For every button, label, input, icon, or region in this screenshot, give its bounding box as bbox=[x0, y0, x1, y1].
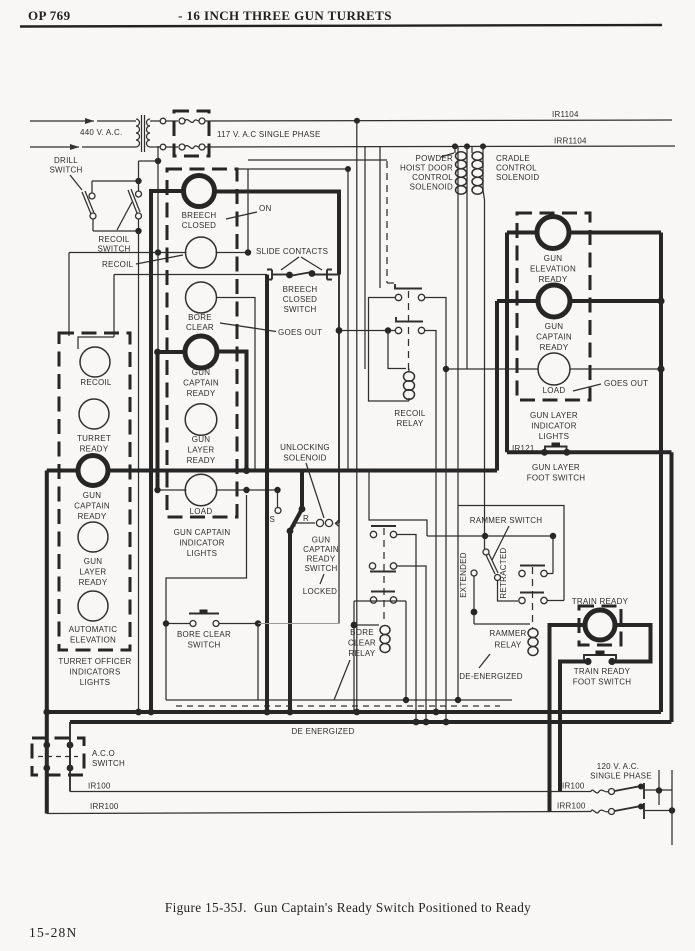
wire thin vertical x365 bbox=[364, 146, 366, 369]
wire x258 drop bbox=[257, 624, 259, 701]
svg-text:GUN: GUN bbox=[84, 557, 103, 566]
wire drill switch top to recoil switch top bbox=[92, 181, 139, 193]
label ON with leader bbox=[226, 204, 272, 219]
lamp load (right) bbox=[538, 353, 570, 385]
rammer relay contact A bbox=[519, 566, 547, 577]
wire thin bus y700 bbox=[166, 699, 512, 701]
svg-text:RETRACTED: RETRACTED bbox=[499, 547, 508, 598]
wire thin continuation to bore clear line bbox=[338, 523, 340, 624]
caption bbox=[29, 900, 531, 940]
wire x114 drop to recoil lamp bracket bbox=[113, 275, 115, 338]
wire contact2 right drop x426 bbox=[397, 566, 427, 722]
svg-text:TURRET OFFICER: TURRET OFFICER bbox=[58, 657, 131, 666]
svg-text:CONTROL: CONTROL bbox=[412, 173, 453, 182]
svg-text:GUN LAYER: GUN LAYER bbox=[530, 411, 578, 420]
svg-text:INDICATOR: INDICATOR bbox=[179, 539, 225, 548]
svg-text:FOOT SWITCH: FOOT SWITCH bbox=[527, 474, 586, 483]
bore clear relay actuator dashed bbox=[383, 528, 385, 624]
lamp gun captain ready (turret officer, lit) bbox=[78, 456, 108, 486]
gun captain ready switch blade bbox=[290, 509, 302, 531]
wire thick gun elevation ready feeder bbox=[507, 231, 661, 235]
node right end of recoil lamp line bbox=[245, 249, 251, 255]
svg-text:INDICATORS: INDICATORS bbox=[69, 668, 120, 677]
svg-text:INDICATOR: INDICATOR bbox=[531, 422, 577, 431]
wire right rail x672 bbox=[671, 770, 673, 845]
svg-text:SINGLE PHASE: SINGLE PHASE bbox=[590, 772, 652, 781]
svg-text:FOOT SWITCH: FOOT SWITCH bbox=[573, 678, 632, 687]
rammer relay actuator dashed bbox=[532, 567, 534, 628]
wire x354 drop bbox=[353, 601, 355, 712]
wire thick foot switch left leg bbox=[560, 662, 588, 792]
svg-text:CLEAR: CLEAR bbox=[348, 639, 376, 648]
label powder hoist door control solenoid bbox=[400, 153, 454, 192]
node on right rail bbox=[657, 297, 664, 304]
label recoil relay bbox=[394, 409, 426, 428]
bore clear relay contact 3 bbox=[370, 592, 396, 604]
svg-text:A.C.O: A.C.O bbox=[92, 749, 115, 758]
transformer T1 primary winding bbox=[136, 119, 140, 147]
recoil relay actuator dashed lower bbox=[408, 291, 410, 370]
svg-text:READY: READY bbox=[307, 555, 336, 564]
svg-text:CAPTAIN: CAPTAIN bbox=[303, 545, 339, 554]
transformer T1 secondary winding bbox=[147, 119, 151, 147]
wire 440V bottom feeder with arrow bbox=[30, 144, 133, 150]
gun layer indicator lights box (dashed) bbox=[517, 213, 590, 400]
lamp automatic elevation bbox=[78, 591, 108, 621]
label rammer switch with leader bbox=[470, 516, 543, 560]
label slide contacts with leaders bbox=[256, 247, 328, 270]
svg-text:SWITCH: SWITCH bbox=[187, 641, 220, 650]
label gun captain ready switch bbox=[303, 536, 339, 574]
wire junction to 117V bus bbox=[139, 160, 159, 162]
fuse and switch on IRR100 bbox=[591, 803, 675, 819]
svg-text:GUN: GUN bbox=[312, 536, 331, 545]
fuse box (dashed) bbox=[174, 111, 209, 156]
wire right rail x659 bbox=[658, 770, 660, 805]
wire thin vertical x348 bbox=[347, 169, 349, 471]
wire long drop from recoil switch to bottom bus bbox=[138, 231, 140, 712]
node drill/recoil top junction bbox=[135, 178, 141, 184]
wire thick gun captain ready loop bbox=[158, 350, 187, 354]
wire contact1 left to loop bbox=[369, 298, 410, 402]
wire faint bore clear to R drop bbox=[258, 623, 339, 625]
wire breech closed switch line y274 thin left run bbox=[114, 274, 267, 276]
train ready foot switch bbox=[584, 651, 616, 666]
lamp gun layer ready (middle column) bbox=[185, 404, 217, 436]
cradle control solenoid coil bbox=[472, 146, 485, 549]
wire thick train ready loop right bbox=[612, 625, 651, 662]
lamp gun captain ready (right, lit) bbox=[538, 285, 570, 317]
label recoil switch bbox=[97, 235, 130, 254]
svg-text:GUN: GUN bbox=[544, 254, 563, 263]
bore clear relay feed bbox=[369, 471, 427, 537]
wire x406 drop bbox=[405, 601, 407, 700]
lamp breech closed (lit) bbox=[184, 176, 215, 207]
gun captain indicator lights box (dashed) bbox=[167, 169, 237, 517]
svg-text:120 V. A.C.: 120 V. A.C. bbox=[597, 762, 639, 771]
label gun layer ready (middle) bbox=[187, 435, 216, 465]
svg-text:SLIDE CONTACTS: SLIDE CONTACTS bbox=[256, 247, 328, 256]
wire y601 run bbox=[354, 600, 406, 602]
svg-text:GUN: GUN bbox=[192, 368, 211, 377]
node top of x348 bbox=[345, 166, 351, 172]
svg-text:IR1104: IR1104 bbox=[552, 110, 579, 119]
wire coil drop bbox=[388, 331, 406, 369]
wire IR100 bus bbox=[70, 791, 591, 793]
svg-text:GOES OUT: GOES OUT bbox=[604, 379, 648, 388]
svg-text:CLOSED: CLOSED bbox=[182, 221, 216, 230]
node recoil switch bottom junction bbox=[135, 228, 141, 234]
wire thick drop from breech closed switch left bracket bbox=[265, 275, 269, 713]
label gun captain ready (middle) bbox=[183, 368, 219, 398]
svg-text:CLOSED: CLOSED bbox=[283, 295, 317, 304]
svg-text:GUN CAPTAIN: GUN CAPTAIN bbox=[174, 528, 231, 537]
wire thin vertical x356 from IR1104 junction bbox=[356, 121, 358, 712]
svg-text:GUN: GUN bbox=[192, 435, 211, 444]
svg-text:BORE CLEAR: BORE CLEAR bbox=[177, 630, 231, 639]
recoil relay coil bbox=[404, 369, 415, 402]
svg-text:CAPTAIN: CAPTAIN bbox=[74, 502, 110, 511]
svg-text:READY: READY bbox=[187, 389, 216, 398]
wire retracted contact drop bbox=[498, 581, 519, 602]
svg-text:GOES OUT: GOES OUT bbox=[278, 328, 322, 337]
svg-text:LIGHTS: LIGHTS bbox=[80, 678, 110, 687]
svg-text:EXTENDED: EXTENDED bbox=[459, 552, 468, 598]
wire dashed y706 bbox=[176, 705, 500, 707]
wire 117V bus IR1104 bbox=[205, 120, 672, 121]
train ready lamp box (dashed) bbox=[579, 606, 621, 645]
wire recoil switch riser bbox=[138, 161, 140, 191]
ACO switch box (dashed) bbox=[32, 738, 84, 775]
svg-text:RELAY: RELAY bbox=[495, 641, 522, 650]
wire thin vertical x458 bbox=[457, 146, 459, 700]
node left of GC ready lamp bbox=[154, 349, 161, 356]
wire extended contact drop bbox=[471, 576, 530, 624]
wire contact2 left feed bbox=[339, 330, 396, 332]
rammer switch bbox=[471, 549, 501, 581]
svg-text:READY: READY bbox=[78, 512, 107, 521]
svg-text:DRILL: DRILL bbox=[54, 156, 78, 165]
bore clear switch enclosure bbox=[166, 495, 247, 700]
label breech closed switch bbox=[283, 285, 318, 314]
svg-text:TURRET: TURRET bbox=[77, 434, 111, 443]
wire thick right rail x661 bbox=[659, 233, 663, 713]
wire thin vertical x380 bbox=[379, 146, 381, 288]
contact S of gun captain ready switch bbox=[270, 490, 282, 524]
svg-text:RELAY: RELAY bbox=[397, 419, 424, 428]
wire contact1 right down x446 bbox=[425, 298, 447, 723]
fuse F2 bbox=[179, 144, 205, 150]
svg-text:LOAD: LOAD bbox=[190, 507, 213, 516]
fuse F1 bbox=[179, 118, 205, 124]
svg-text:GUN: GUN bbox=[83, 491, 102, 500]
label goes out (right) with leader bbox=[573, 379, 648, 391]
lamp gun elevation ready (lit) bbox=[537, 217, 569, 249]
label recoil (lamp pointer) bbox=[102, 255, 183, 269]
svg-text:SOLENOID: SOLENOID bbox=[410, 183, 453, 192]
label bore clear relay bbox=[348, 628, 376, 658]
lamp load (middle column) bbox=[185, 474, 217, 506]
wire thin y160 bbox=[248, 159, 387, 161]
recoil relay contact 1 terminals bbox=[395, 294, 424, 300]
svg-text:ELEVATION: ELEVATION bbox=[530, 265, 576, 274]
header bbox=[20, 8, 662, 27]
wire 440V top feeder with arrow bbox=[30, 118, 133, 124]
svg-text:RECOIL: RECOIL bbox=[80, 378, 112, 387]
svg-text:117 V. A.C SINGLE PHASE: 117 V. A.C SINGLE PHASE bbox=[217, 130, 321, 139]
svg-text:SWITCH: SWITCH bbox=[304, 564, 337, 573]
node junctions on load line bbox=[443, 366, 449, 372]
wire medium drop from switch right corner to R contact bbox=[338, 275, 340, 524]
svg-text:ON: ON bbox=[259, 204, 272, 213]
wire rammer feeder y536 bbox=[427, 535, 553, 537]
svg-text:CAPTAIN: CAPTAIN bbox=[183, 379, 219, 388]
wire contact B right to x564 bbox=[547, 600, 564, 602]
svg-text:SOLENOID: SOLENOID bbox=[496, 173, 539, 182]
breech closed switch (slide contacts) bbox=[267, 270, 339, 280]
svg-text:OP 769: OP 769 bbox=[28, 8, 71, 23]
wire thick gun captain ready (right) feeder bbox=[497, 301, 661, 471]
recoil relay actuator dashed upper bbox=[387, 161, 395, 283]
wire thick bus y712 bbox=[47, 710, 661, 714]
node junctions on y722 bbox=[413, 719, 420, 726]
node junctions on y700 bbox=[403, 697, 409, 703]
wire contact A right to x553 bbox=[547, 573, 553, 575]
label gun layer foot switch bbox=[527, 463, 586, 483]
svg-text:RAMMER: RAMMER bbox=[489, 629, 526, 638]
lamp turret ready bbox=[79, 399, 109, 429]
svg-text:GUN: GUN bbox=[545, 322, 564, 331]
svg-text:- 16 INCH THREE GUN TURRETS: - 16 INCH THREE GUN TURRETS bbox=[178, 8, 392, 23]
lamp recoil (turret officer) bbox=[80, 347, 110, 377]
wire thin riser x248 bbox=[247, 169, 249, 253]
wire IRR100 bus bbox=[47, 812, 591, 814]
ACO switch contacts bbox=[38, 742, 78, 772]
wire load lamp line y490 bbox=[158, 489, 278, 491]
fuse and switch on IR100 bbox=[591, 783, 672, 799]
wire drop from IRR1104 bus bbox=[157, 146, 159, 352]
wire thick foot switch bus y452.3 bbox=[507, 450, 672, 454]
svg-text:RECOIL: RECOIL bbox=[98, 235, 130, 244]
node at IRR drop bbox=[155, 158, 161, 164]
svg-text:Figure 15-35J. Gun Captain's: Figure 15-35J. Gun Captain's Ready Switc… bbox=[165, 900, 531, 915]
recoil relay contact 2 terminals bbox=[395, 327, 424, 333]
label rammer relay with leader bbox=[479, 629, 527, 668]
svg-text:AUTOMATIC: AUTOMATIC bbox=[69, 625, 118, 634]
contact R of gun captain ready switch bbox=[295, 514, 339, 527]
wire thick drop x506 bbox=[505, 233, 509, 453]
wire ACO right leg to IR100 bbox=[69, 722, 71, 792]
svg-text:IRR100: IRR100 bbox=[557, 802, 586, 811]
label bore clear switch bbox=[177, 630, 231, 650]
lamp gun captain ready (middle, lit) bbox=[185, 336, 217, 368]
svg-text:DE-ENERGIZED: DE-ENERGIZED bbox=[459, 672, 522, 681]
svg-text:CONTROL: CONTROL bbox=[496, 164, 537, 173]
wire main thick bus y470.5 bbox=[47, 469, 497, 473]
svg-text:RELAY: RELAY bbox=[349, 649, 376, 658]
svg-text:CLEAR: CLEAR bbox=[186, 323, 214, 332]
svg-text:READY: READY bbox=[79, 578, 108, 587]
svg-text:IR100: IR100 bbox=[562, 782, 585, 791]
svg-text:READY: READY bbox=[80, 445, 109, 454]
wire thick train ready loop left bbox=[550, 625, 586, 812]
wire x553 drop from y536 bbox=[552, 536, 554, 574]
lamp bore clear (middle column) bbox=[186, 282, 217, 313]
node junctions on load line bbox=[243, 487, 249, 493]
label drill switch bbox=[49, 156, 82, 190]
svg-text:UNLOCKING: UNLOCKING bbox=[280, 443, 330, 452]
svg-text:CAPTAIN: CAPTAIN bbox=[536, 333, 572, 342]
leader to locked bbox=[320, 574, 324, 584]
label turret officer indicators lights bbox=[58, 657, 131, 687]
svg-text:SWITCH: SWITCH bbox=[49, 166, 82, 175]
node on y252 line bbox=[155, 249, 161, 255]
svg-text:R: R bbox=[303, 514, 309, 523]
label cradle control solenoid bbox=[496, 154, 539, 182]
wire contact1 right drop x416 bbox=[397, 535, 417, 723]
svg-text:15-28N: 15-28N bbox=[29, 925, 77, 940]
lamp train ready (lit) bbox=[585, 610, 615, 640]
wire thick right from breech closed lamp to breech closed switch bbox=[214, 192, 340, 275]
svg-text:BORE: BORE bbox=[350, 628, 374, 637]
wire thick left drop from breech closed lamp bbox=[151, 191, 185, 712]
svg-text:RAMMER SWITCH: RAMMER SWITCH bbox=[470, 516, 543, 525]
wire bracket over turret-officer recoil lamp bbox=[78, 337, 114, 349]
node junctions feeding solenoids bbox=[452, 143, 458, 149]
svg-text:RECOIL: RECOIL bbox=[102, 260, 134, 269]
wire secondary to fuse box terminals bbox=[153, 120, 160, 122]
recoil switch S2 bbox=[117, 189, 142, 230]
svg-text:LAYER: LAYER bbox=[188, 446, 215, 455]
wire main bus left drop to ACO bbox=[45, 471, 49, 814]
svg-text:READY: READY bbox=[187, 456, 216, 465]
wire thick bus y722 bbox=[70, 720, 672, 724]
wire bore clear lamp right tail bbox=[217, 298, 256, 471]
wire recoil lamp feeder y252 bbox=[69, 252, 248, 254]
svg-text:IR100: IR100 bbox=[88, 782, 111, 791]
recoil relay contact 2 bar bbox=[396, 317, 423, 322]
wire coil left stub bbox=[354, 624, 379, 626]
rammer relay coil bbox=[528, 629, 538, 656]
svg-text:LOAD: LOAD bbox=[543, 386, 566, 395]
svg-text:S: S bbox=[270, 515, 276, 524]
label 120 V. A.C. single phase bbox=[590, 762, 652, 781]
svg-text:LAYER: LAYER bbox=[80, 568, 107, 577]
bore clear relay contact 1 bbox=[370, 526, 396, 538]
MAIN SCHEMATIC bbox=[30, 110, 675, 845]
node junction on IR1104 bus bbox=[354, 118, 360, 124]
bore clear relay coil bbox=[380, 626, 390, 653]
node coil left bbox=[351, 622, 358, 629]
wire thick right rail x671.5 bbox=[670, 452, 674, 722]
svg-text:LIGHTS: LIGHTS bbox=[187, 549, 217, 558]
label gun captain indicator lights bbox=[174, 528, 231, 558]
lamp recoil (middle column) bbox=[186, 237, 217, 268]
node on x339 bbox=[336, 327, 343, 334]
wire thin y169 extension to x348 bbox=[237, 168, 348, 170]
label bore clear bbox=[186, 313, 214, 332]
svg-text:LIGHTS: LIGHTS bbox=[539, 432, 569, 441]
svg-text:TRAIN READY: TRAIN READY bbox=[574, 667, 631, 676]
svg-text:SWITCH: SWITCH bbox=[283, 305, 316, 314]
svg-text:SWITCH: SWITCH bbox=[92, 759, 125, 768]
svg-text:BREECH: BREECH bbox=[283, 285, 318, 294]
label gun layer indicator lights bbox=[530, 411, 578, 441]
wire 117V bus IRR1104 bbox=[205, 146, 675, 147]
lamp gun layer ready (turret officer) bbox=[78, 522, 108, 552]
leader bore clear relay to de-energized bbox=[334, 660, 350, 700]
label unlocking solenoid with leader bbox=[280, 443, 330, 518]
node junctions on y712 bbox=[43, 709, 50, 716]
label ACO switch bbox=[92, 749, 125, 768]
svg-text:HOIST DOOR: HOIST DOOR bbox=[400, 164, 453, 173]
wire left rail drop bbox=[68, 253, 70, 337]
svg-text:CRADLE: CRADLE bbox=[496, 154, 530, 163]
wire drill switch bottom bar bbox=[93, 219, 139, 231]
node coil drop junction bbox=[385, 327, 391, 333]
svg-text:READY: READY bbox=[540, 343, 569, 352]
wire contact2 right down x436 bbox=[425, 331, 437, 713]
svg-text:BORE: BORE bbox=[188, 313, 212, 322]
drill switch S1 bbox=[82, 191, 96, 219]
label train ready foot switch bbox=[573, 667, 632, 687]
svg-text:LOCKED: LOCKED bbox=[303, 587, 337, 596]
svg-text:SOLENOID: SOLENOID bbox=[283, 454, 326, 463]
node rammer switch pivot feed bbox=[482, 533, 488, 539]
svg-text:440 V. A.C.: 440 V. A.C. bbox=[80, 128, 122, 137]
svg-text:IRR1104: IRR1104 bbox=[554, 137, 587, 146]
label goes out (middle) with leader bbox=[220, 323, 322, 337]
transformer T1 core bbox=[141, 115, 143, 152]
svg-text:RECOIL: RECOIL bbox=[394, 409, 426, 418]
svg-text:GUN LAYER: GUN LAYER bbox=[532, 463, 580, 472]
gun layer foot switch bbox=[541, 443, 570, 456]
svg-text:IRR100: IRR100 bbox=[90, 802, 119, 811]
wire load (right) line y369 bbox=[446, 368, 661, 370]
powder hoist door control solenoid coil bbox=[455, 146, 467, 369]
svg-text:DE ENERGIZED: DE ENERGIZED bbox=[291, 727, 354, 736]
wire thick drop from blade to bottom bus bbox=[288, 531, 292, 712]
svg-text:BREECH: BREECH bbox=[182, 211, 217, 220]
turret officer indicators lights box (dashed) bbox=[59, 333, 130, 650]
bore clear switch pedal bbox=[163, 610, 261, 627]
recoil relay contact 1 bar bbox=[395, 284, 422, 289]
svg-text:ELEVATION: ELEVATION bbox=[70, 636, 116, 645]
label breech closed bbox=[182, 211, 217, 230]
bore clear relay contact 2 bbox=[369, 563, 396, 572]
wire x564 riser and y497 run bbox=[458, 506, 564, 601]
rammer relay contact B bbox=[519, 593, 547, 604]
gun captain ready switch stub (thick) bbox=[300, 471, 304, 510]
